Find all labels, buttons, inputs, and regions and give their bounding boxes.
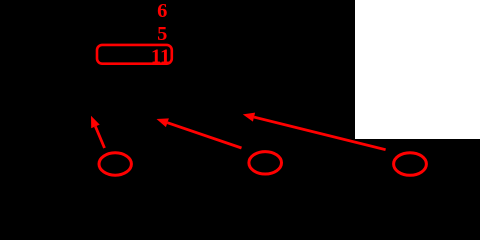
- ellipse marker 1: [99, 153, 131, 175]
- arrow 3 (from ellipse 3 up-left): [243, 113, 386, 150]
- ellipse marker 2: [249, 152, 282, 174]
- ellipse marker 3: [394, 153, 427, 176]
- svg-text:5: 5: [157, 23, 167, 45]
- white region (cropped slide area): [355, 0, 480, 139]
- arrow 1 (from ellipse 1 up-left): [91, 116, 105, 148]
- svg-text:6: 6: [157, 0, 167, 22]
- arrow 2 (from ellipse 2 up-left): [157, 118, 242, 148]
- svg-text:11: 11: [151, 46, 170, 68]
- highlight box around value 11: [97, 45, 172, 64]
